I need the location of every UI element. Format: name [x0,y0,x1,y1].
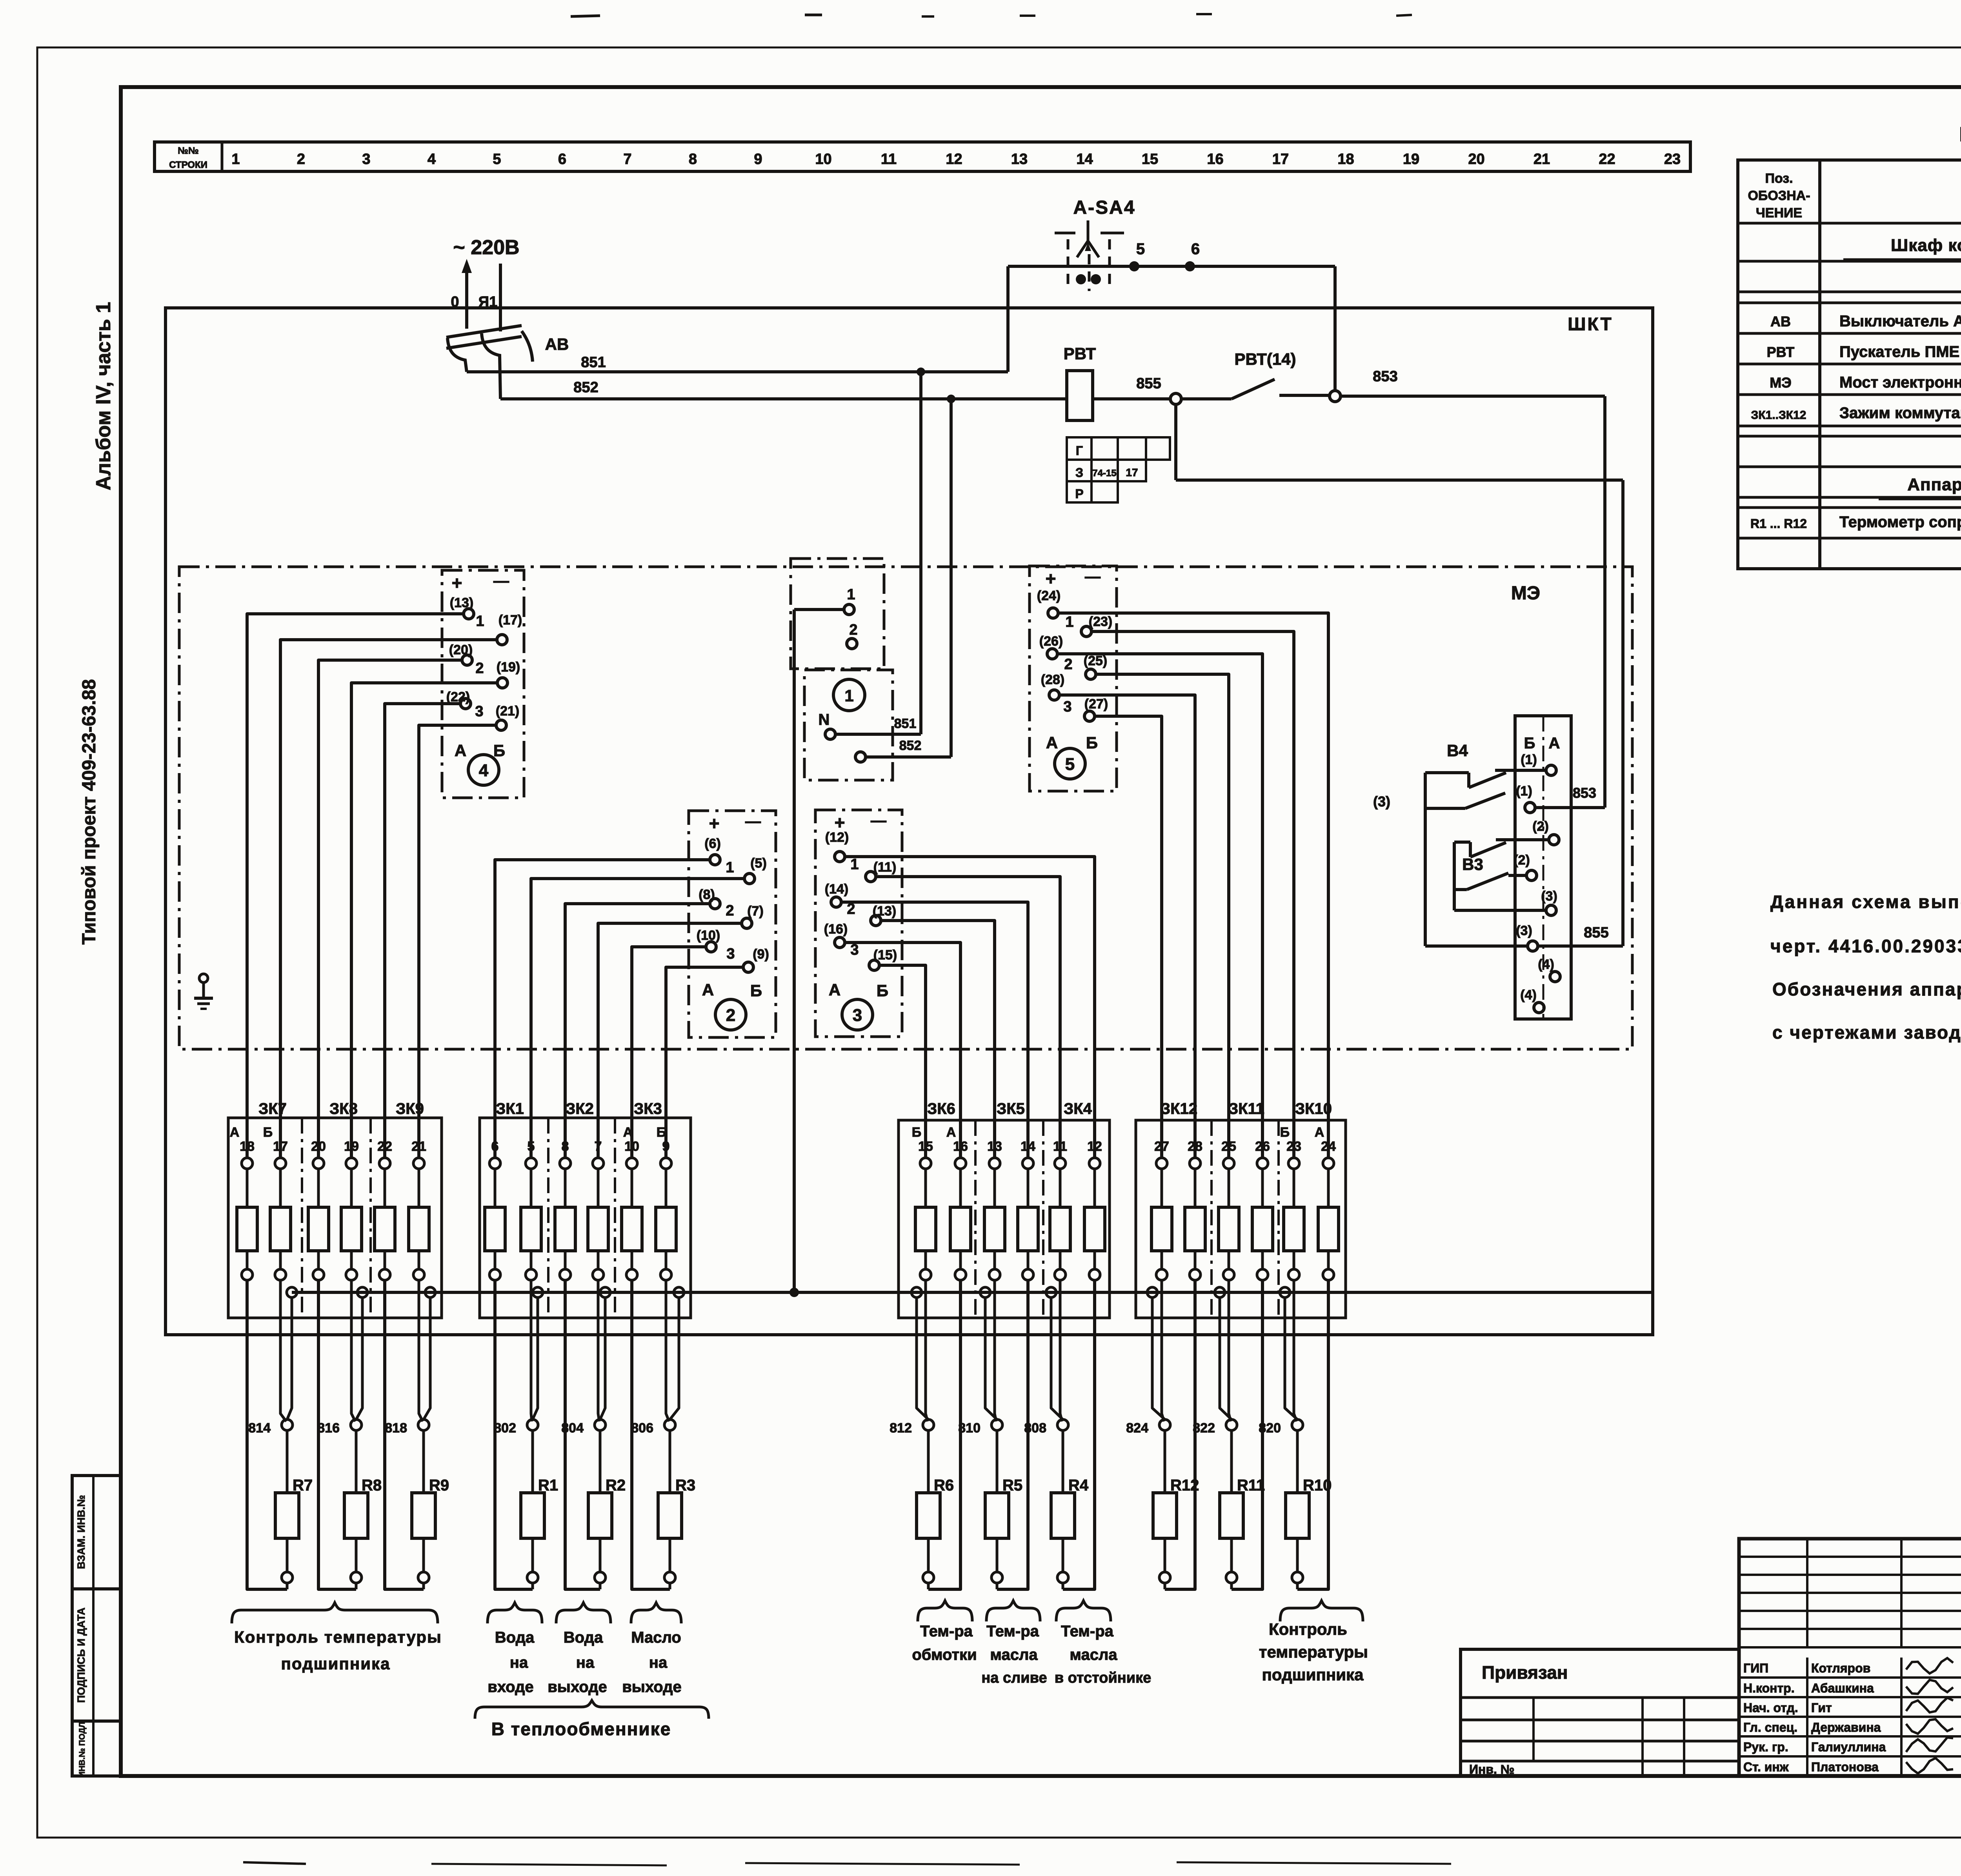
svg-text:812: 812 [890,1421,912,1436]
svg-text:ЗК7: ЗК7 [258,1100,287,1117]
wire 855 from coil to node [1093,397,1170,400]
svg-text:23: 23 [1664,151,1681,167]
svg-text:ПОДПИСЬ И ДАТА: ПОДПИСЬ И ДАТА [75,1607,87,1703]
svg-text:852: 852 [573,379,598,396]
svg-text:Обозначения аппаратов принят: Обозначения аппаратов приняты в соответс… [1772,979,1961,999]
svg-text:1: 1 [850,856,859,873]
svg-text:РВТ: РВТ [1767,344,1795,360]
svg-text:(2): (2) [1532,819,1549,834]
svg-text:0: 0 [451,294,459,310]
wire to R8 top [355,1430,358,1493]
wire to R11 top [1230,1430,1233,1493]
svg-text:Пускатель ПМЕ: Пускатель ПМЕ [1839,343,1959,360]
svg-text:27: 27 [1154,1139,1169,1154]
connector 3 id circle [842,999,873,1030]
svg-text:5: 5 [1065,755,1075,774]
svg-text:Рук. гр.: Рук. гр. [1743,1740,1788,1754]
svg-text:В4: В4 [1447,741,1468,760]
svg-text:(28): (28) [1041,672,1064,687]
svg-text:+: + [709,813,720,833]
svg-text:6: 6 [1191,240,1200,258]
svg-text:Б: Б [493,741,505,760]
bus junction for R7 [287,1287,297,1297]
svg-text:—: — [493,572,509,590]
svg-text:Тем-ра: Тем-ра [920,1623,973,1640]
A-wire down for R12 [1165,1280,1195,1589]
svg-text:21: 21 [1534,151,1550,167]
svg-text:7: 7 [623,151,631,167]
ME terminal (3) at y2412 [1528,941,1538,951]
svg-text:3: 3 [475,703,483,720]
svg-text:1: 1 [847,586,855,603]
svg-text:5: 5 [528,1139,535,1154]
ME terminal (1) at y1964 [1546,765,1556,775]
svg-text:ЗК6: ЗК6 [927,1100,955,1117]
title block roles rows [1739,1676,1961,1679]
svg-text:814: 814 [248,1421,271,1436]
resistor R2 [588,1493,612,1538]
A-wire down for R3 [632,1280,670,1589]
block 2 wires to ZK1-3 [495,860,710,1158]
svg-text:(1): (1) [1516,784,1532,799]
svg-text:18: 18 [240,1139,255,1154]
row-number ruler strip [155,142,1690,171]
svg-text:(2): (2) [1513,853,1530,868]
SA4 contact 5 [1129,261,1139,271]
svg-text:Гит: Гит [1811,1701,1832,1715]
terminal block ZK1-3 group box [480,1118,691,1318]
svg-text:Гл. спец.: Гл. спец. [1743,1720,1797,1734]
wire pair down to R1 [531,1280,532,1421]
svg-text:820: 820 [1259,1421,1281,1436]
R7 bottom terminal [286,1538,289,1572]
title block upper-left revision table [1739,1556,1961,1558]
svg-text:2: 2 [726,903,734,919]
svg-text:19: 19 [344,1139,359,1154]
svg-text:(3): (3) [1516,923,1532,938]
svg-text:Нач. отд.: Нач. отд. [1743,1701,1798,1715]
wire 853 to ME terminal [1535,806,1605,809]
A-wire down for R9 [385,1280,424,1589]
svg-text:(3): (3) [1373,793,1390,810]
svg-text:входе: входе [488,1678,533,1696]
svg-text:852: 852 [899,738,922,753]
svg-text:подшипника: подшипника [1262,1665,1364,1684]
svg-text:74-15: 74-15 [1092,468,1116,479]
svg-text:28: 28 [1188,1139,1202,1154]
wire 855 left segment to rail [1425,944,1528,948]
ME terminal (3) at y2321 [1546,905,1556,915]
scan marks bottom [243,1862,306,1864]
svg-text:З: З [1075,466,1083,480]
svg-text:выходе: выходе [622,1678,682,1696]
wire to R2 top [599,1430,602,1493]
svg-text:25: 25 [1221,1139,1236,1154]
svg-text:(25): (25) [1084,653,1107,668]
svg-text:Абашкина: Абашкина [1811,1681,1874,1695]
svg-text:РВТ: РВТ [1064,344,1096,363]
A-wire down for R6 [928,1280,960,1589]
svg-text:3: 3 [726,946,735,962]
RVT contact map table [1067,437,1091,460]
svg-text:Котляров: Котляров [1811,1661,1870,1675]
wire 852 into N box [866,755,951,759]
svg-text:R5: R5 [1002,1477,1022,1494]
svg-text:черт. 4416.00.29033 НИИтяжмаш: черт. 4416.00.29033 НИИтяжмаш ОГКЭПА [1770,936,1961,956]
wire to R3 top [669,1430,671,1493]
SA4 dash guides [1055,232,1075,235]
svg-text:ЗК8: ЗК8 [329,1100,358,1117]
connector block 3 box [815,810,902,1037]
wire pair down to R5 [995,1280,996,1421]
svg-text:ШКТ: ШКТ [1568,314,1613,334]
bus junction for R11 [1215,1287,1225,1297]
block 4 wires to ZK7-9 [247,614,464,1158]
ground symbol [199,974,208,983]
caption R2 water out [556,1603,611,1623]
svg-text:(3): (3) [1541,889,1557,904]
svg-text:ЗК12: ЗК12 [1161,1100,1197,1117]
svg-text:ЗК9: ЗК9 [396,1100,424,1117]
caption R6 winding temp [918,1601,972,1621]
svg-text:А: А [829,981,840,999]
svg-text:Б: Б [912,1125,921,1140]
bus junction for R12 [1147,1287,1157,1297]
svg-text:1: 1 [726,859,734,876]
svg-text:851: 851 [581,354,606,371]
svg-text:ЗК2: ЗК2 [566,1100,594,1117]
svg-text:Контроль температуры: Контроль температуры [234,1628,442,1646]
svg-text:20: 20 [311,1139,326,1154]
svg-text:3: 3 [850,942,859,958]
connector 4 id circle [468,755,499,785]
svg-text:Аппаратура по месту: Аппаратура по месту [1907,475,1961,494]
svg-text:Б: Б [1086,733,1098,752]
svg-text:10: 10 [624,1139,639,1154]
svg-text:выходе: выходе [548,1678,607,1696]
wire pair down to R12 [1162,1280,1164,1421]
svg-text:А: А [1046,733,1058,752]
svg-text:МЭ: МЭ [1770,375,1792,391]
svg-text:Шкаф контроля температуры Ш: Шкаф контроля температуры ШКТ [1891,236,1961,255]
svg-text:3: 3 [362,151,370,167]
svg-text:температуры: температуры [1259,1643,1368,1661]
svg-text:22: 22 [1599,151,1615,167]
svg-text:—: — [1085,568,1101,585]
svg-text:2: 2 [849,622,857,638]
svg-text:1: 1 [1065,614,1073,630]
breaker AV [446,326,522,337]
wire 851 riser to SA4 bus [1006,266,1010,372]
svg-text:15: 15 [1142,151,1158,167]
svg-text:А: А [702,981,714,999]
svg-text:Тем-ра: Тем-ра [986,1623,1039,1640]
svg-text:(17): (17) [498,613,522,628]
svg-text:(11): (11) [873,860,897,875]
svg-text:16: 16 [1207,151,1223,167]
svg-text:22: 22 [377,1139,392,1154]
svg-text:24: 24 [1321,1139,1336,1154]
SA4 contact 6 [1185,261,1195,271]
svg-text:ВЗАМ. ИНВ.№: ВЗАМ. ИНВ.№ [75,1495,87,1569]
R11 bottom terminal [1230,1538,1233,1572]
svg-text:1: 1 [476,613,484,630]
svg-text:5: 5 [1136,240,1145,258]
svg-text:855: 855 [1584,924,1608,941]
title block outline [1739,1539,1961,1776]
svg-text:ГИП: ГИП [1743,1661,1768,1675]
wire 855 to ME terminal [1538,944,1623,948]
cable junction circle 820 [1292,1419,1303,1430]
svg-text:МЭ: МЭ [1511,583,1540,604]
svg-text:(24): (24) [1037,588,1061,603]
svg-text:17: 17 [273,1139,288,1154]
svg-text:4: 4 [427,151,436,167]
svg-text:14: 14 [1076,151,1093,167]
ME terminal (1) at y2059 [1525,802,1535,813]
svg-text:(26): (26) [1039,634,1063,649]
svg-text:R7: R7 [293,1477,313,1494]
A-wire down for R11 [1232,1280,1262,1589]
svg-text:(10): (10) [697,928,720,943]
svg-text:822: 822 [1193,1421,1215,1436]
caption R5 oil drain temp [986,1601,1040,1621]
svg-text:12: 12 [1087,1139,1102,1154]
svg-text:масла: масла [1070,1646,1117,1663]
node 855 [1170,393,1181,404]
svg-text:Ст. инж: Ст. инж [1743,1760,1789,1774]
svg-text:Б: Б [263,1125,273,1140]
bus junction for R9 [425,1287,435,1297]
wire to R10 top [1296,1430,1299,1493]
caption bearings right [1280,1601,1363,1621]
N box [804,670,893,780]
svg-text:2: 2 [1064,656,1072,673]
svg-text:3: 3 [1063,699,1071,715]
svg-text:—: — [745,813,761,830]
A-wire down for R2 [565,1280,600,1589]
bus riser junction dot [789,1288,799,1297]
wire from terminal 1 to bus riser [794,608,844,611]
svg-text:12: 12 [946,151,962,167]
svg-text:808: 808 [1024,1421,1046,1436]
svg-text:(12): (12) [825,830,849,845]
wire pair down to R9 [419,1280,423,1421]
cable junction circle 824 [1159,1419,1170,1430]
svg-text:ЗК4: ЗК4 [1064,1100,1092,1117]
wire pair down to R4 [1060,1280,1062,1421]
svg-text:~ 220В: ~ 220В [453,236,519,259]
svg-text:R1 ... R12: R1 ... R12 [1750,517,1807,531]
junction on 852 [947,395,955,403]
svg-text:14: 14 [1021,1139,1035,1154]
svg-text:Платонова: Платонова [1811,1760,1879,1774]
svg-text:Б: Б [750,981,762,1000]
svg-text:ЧЕНИЕ: ЧЕНИЕ [1756,206,1802,220]
RVT(14) contact [1181,397,1232,400]
svg-text:В теплообменнике: В теплообменнике [491,1719,671,1739]
svg-text:ЗК11: ЗК11 [1228,1100,1264,1117]
wire to R7 top [286,1430,289,1493]
resistor R5 [985,1493,1009,1538]
svg-text:10: 10 [815,151,831,167]
svg-text:2: 2 [726,1006,735,1025]
svg-text:3: 3 [853,1006,862,1025]
svg-text:Вода: Вода [564,1629,603,1646]
element table grid [1738,160,1961,569]
svg-text:806: 806 [631,1421,653,1436]
wire pair down to R10 [1294,1280,1297,1421]
bus riser vertical [793,610,796,1292]
svg-text:Тем-ра: Тем-ра [1061,1623,1114,1640]
wire 855 middle horizontal [1176,479,1623,482]
svg-text:Зажим коммутационный ЗК-2,5: Зажим коммутационный ЗК-2,5 [1839,404,1961,422]
svg-text:19: 19 [1403,151,1419,167]
R2 bottom terminal [599,1538,602,1572]
svg-text:(27): (27) [1084,697,1108,711]
svg-text:Б: Б [657,1125,666,1140]
SA4 cam contacts [1076,274,1086,284]
caption R4 oil sump temp [1056,1601,1111,1621]
wire 853 vertical [1603,396,1606,808]
block 3 wires to ZK6-4 [845,857,1095,1158]
svg-text:на сливе: на сливе [981,1670,1047,1686]
svg-text:ЗК10: ЗК10 [1295,1100,1332,1117]
wire 852 horizontal [500,397,1067,400]
svg-text:с чертежами завода-изготовите: с чертежами завода-изготовителя дробилки… [1772,1022,1961,1043]
svg-text:9: 9 [754,151,762,167]
svg-text:Б: Б [877,981,888,1000]
cable junction circle 810 [991,1419,1002,1430]
scan marks top [571,16,600,16]
connector block 5 box [1030,566,1117,791]
svg-text:А: А [1549,735,1560,752]
terminal block ZK7-9 group box [228,1118,442,1318]
cable junction circle 812 [923,1419,934,1430]
resistor R10 [1286,1493,1309,1538]
svg-text:—: — [871,812,886,829]
wire pair down to R3 [666,1280,669,1421]
bus drop to node 2 [1333,266,1337,391]
wire to R5 top [996,1430,999,1493]
svg-text:20: 20 [1468,151,1484,167]
svg-text:824: 824 [1126,1421,1148,1436]
svg-text:2: 2 [297,151,305,167]
R9 bottom terminal [422,1538,425,1572]
svg-text:17: 17 [1126,466,1138,479]
svg-text:на: на [649,1654,668,1671]
svg-text:Р: Р [1075,487,1083,501]
svg-text:масла: масла [990,1646,1038,1663]
svg-text:Масло: Масло [631,1629,681,1646]
A-wire down for R7 [247,1280,287,1589]
svg-text:R4: R4 [1068,1477,1089,1494]
svg-text:Я1: Я1 [478,294,497,310]
caption R3 oil out [631,1603,681,1623]
connector block 2 box [689,811,776,1037]
svg-text:(21): (21) [496,704,519,719]
caption heat exchanger [475,1701,709,1719]
R8 bottom terminal [355,1538,358,1572]
wire pair down to R2 [598,1280,599,1421]
R12 bottom terminal [1164,1538,1166,1572]
svg-text:R11: R11 [1237,1477,1265,1494]
margin stamp boxes [72,1476,120,1776]
cable junction circle 806 [664,1419,675,1430]
svg-text:R8: R8 [362,1477,382,1494]
svg-text:на: на [510,1654,528,1671]
bus junction for R6 [911,1287,922,1297]
svg-text:Контроль: Контроль [1269,1620,1347,1638]
supply line 0 [465,264,468,329]
svg-text:11: 11 [1053,1139,1067,1154]
bus junction for R3 [674,1287,684,1297]
svg-text:Державина: Державина [1811,1720,1881,1734]
svg-text:16: 16 [953,1139,968,1154]
A-wire down for R4 [1063,1280,1095,1589]
svg-text:R6: R6 [934,1477,954,1494]
connector 1-2 box [791,559,884,669]
A-wire down for R10 [1297,1280,1328,1589]
wire to R1 top [531,1430,534,1493]
svg-text:на: на [576,1654,595,1671]
svg-text:Привязан: Привязан [1482,1662,1568,1683]
svg-text:R1: R1 [538,1477,558,1494]
RVT coil [1067,371,1093,420]
svg-text:Г: Г [1076,444,1083,458]
svg-text:(23): (23) [1089,614,1112,629]
svg-text:(14): (14) [825,882,848,897]
svg-text:6: 6 [491,1139,499,1154]
svg-text:13: 13 [1011,151,1028,167]
svg-text:Поз.: Поз. [1765,171,1793,186]
cable junction circle 802 [527,1419,538,1430]
svg-text:818: 818 [385,1421,407,1436]
svg-text:Б: Б [1524,735,1535,752]
svg-text:Галиуллина: Галиуллина [1811,1740,1886,1754]
svg-text:11: 11 [881,151,897,167]
svg-text:ЗК3: ЗК3 [634,1100,662,1117]
N terminal 851 [825,729,835,739]
svg-text:ОБОЗНА-: ОБОЗНА- [1748,188,1810,203]
svg-text:Типовой проект 409-23-63.88: Типовой проект 409-23-63.88 [79,679,100,944]
svg-text:№№: №№ [178,146,199,156]
svg-text:15: 15 [918,1139,933,1154]
A-wire down for R8 [318,1280,356,1589]
bus junction for R8 [357,1287,367,1297]
block 5 wires to ZK12-10 [1058,613,1328,1158]
pривязан table [1461,1649,1739,1776]
svg-text:853: 853 [1373,368,1397,385]
caption bearings left [232,1603,438,1623]
svg-text:R3: R3 [675,1477,695,1494]
wire 855 vertical [1621,480,1624,946]
svg-text:(4): (4) [1520,988,1537,1003]
wire pair down to R8 [351,1280,355,1421]
cable junction circle 816 [351,1419,362,1430]
svg-text:21: 21 [411,1139,426,1154]
svg-text:802: 802 [494,1421,516,1436]
svg-text:В3: В3 [1462,855,1483,873]
svg-text:СТРОКИ: СТРОКИ [169,160,207,170]
wire 855 drop from node [1174,404,1177,480]
svg-text:816: 816 [317,1421,340,1436]
SA4 top bus [1008,265,1335,268]
resistor R8 [344,1493,368,1538]
svg-text:26: 26 [1255,1139,1270,1154]
bus junction for R5 [980,1287,990,1297]
svg-text:Вода: Вода [495,1629,535,1646]
